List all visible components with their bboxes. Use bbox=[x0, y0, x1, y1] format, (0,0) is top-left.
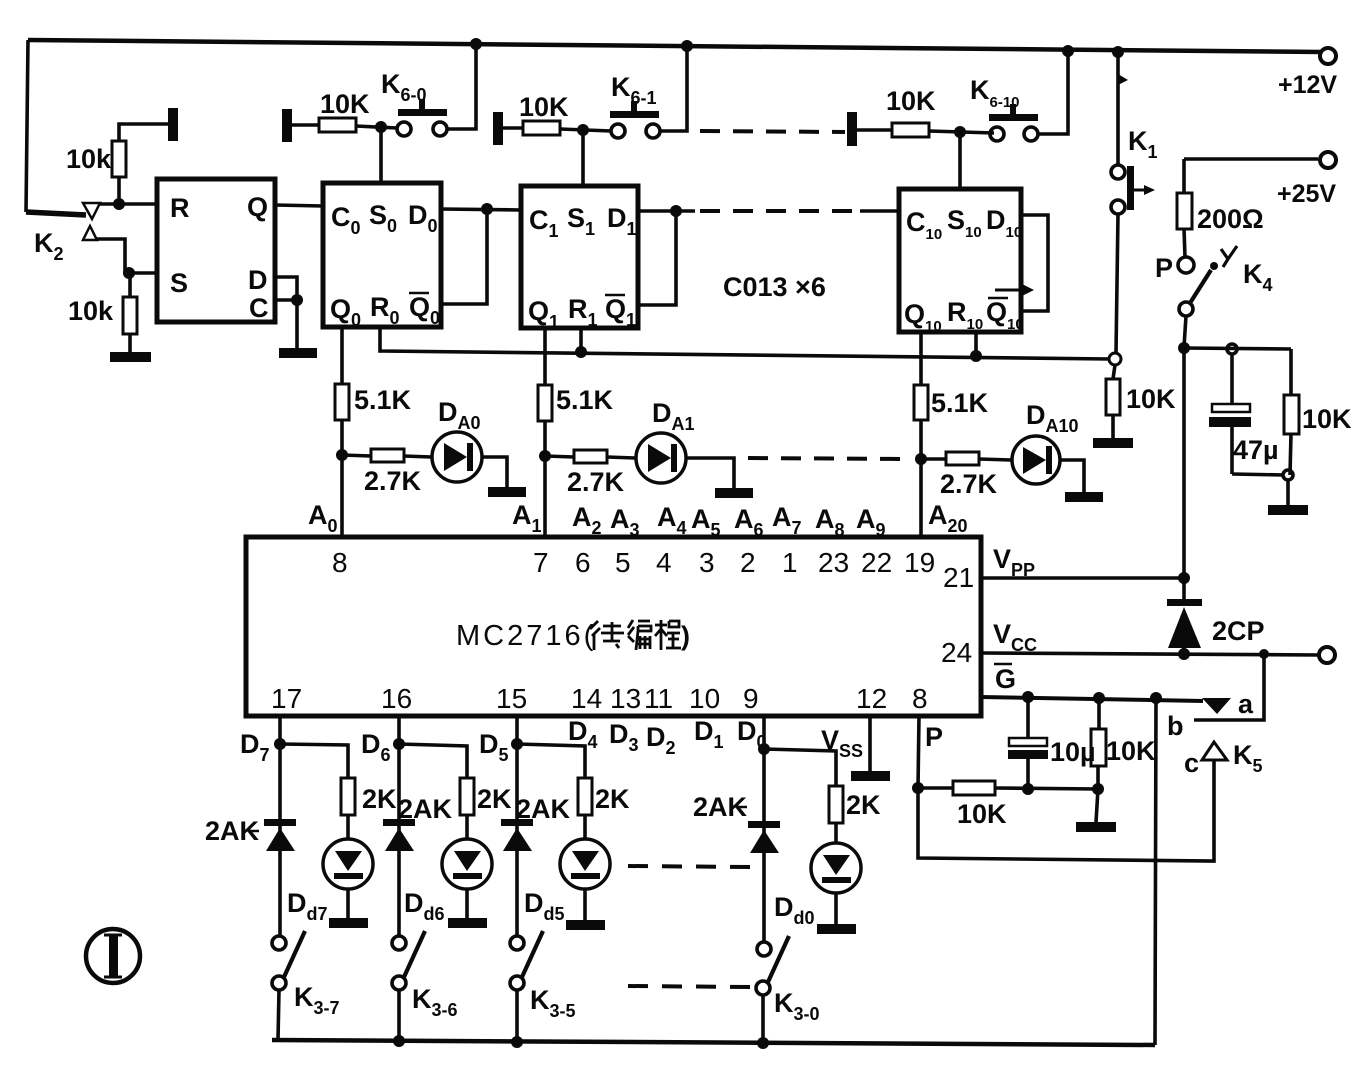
wire S0 stem bbox=[379, 127, 383, 183]
svg-text:c: c bbox=[1184, 748, 1199, 778]
resistor 10K stage10 bbox=[857, 128, 892, 132]
ground Dd6 bbox=[448, 918, 487, 928]
svg-text:P: P bbox=[925, 722, 943, 752]
wire ch1 to A1 pin bbox=[543, 421, 547, 537]
ground Dd7 bbox=[329, 918, 368, 928]
switch K3-5 bbox=[510, 936, 524, 950]
node ch10 bbox=[915, 453, 927, 465]
SECTION: dashed continuation + flip-flop stage 10 bbox=[700, 51, 1068, 335]
node R10 on reset rail bbox=[970, 350, 982, 362]
svg-text:5.1K: 5.1K bbox=[931, 388, 989, 418]
resistor 2.7K ch10 bbox=[921, 457, 946, 461]
svg-text:10K: 10K bbox=[886, 86, 936, 116]
ground below 10k bbox=[110, 352, 151, 362]
svg-text:+25V: +25V bbox=[1277, 180, 1336, 208]
wire K3-6 to rail bbox=[397, 990, 401, 1041]
svg-text:10k: 10k bbox=[66, 144, 112, 174]
svg-text:22: 22 bbox=[861, 547, 892, 578]
node top rail at x1118 bbox=[1112, 46, 1124, 58]
svg-text:14: 14 bbox=[571, 683, 602, 714]
wire S10 stem bbox=[958, 132, 962, 189]
wire into C10 bbox=[860, 209, 899, 213]
svg-text:24: 24 bbox=[941, 637, 972, 668]
wire D0 stem bbox=[762, 716, 766, 942]
wire D pin to C pin join bbox=[275, 277, 297, 300]
wire K4 to VPP node bbox=[1184, 316, 1186, 578]
dashed wire switch row bbox=[628, 986, 750, 987]
svg-text:5.1K: 5.1K bbox=[556, 385, 614, 415]
wire junction to 47u and 10K bbox=[1184, 348, 1291, 349]
wire D6 stem bbox=[397, 716, 401, 936]
svg-text:23: 23 bbox=[818, 547, 849, 578]
svg-text:19: 19 bbox=[904, 547, 935, 578]
wire left rail vertical bbox=[26, 40, 28, 212]
svg-text:7: 7 bbox=[533, 547, 549, 578]
wire VSS stem bbox=[868, 716, 872, 771]
svg-text:4: 4 bbox=[656, 547, 672, 578]
SECTION: flip-flop stage 1 bbox=[493, 46, 826, 332]
svg-text:13: 13 bbox=[610, 683, 641, 714]
wire reset rail bbox=[380, 327, 1110, 359]
svg-text:12: 12 bbox=[856, 683, 887, 714]
wire to ground bbox=[295, 300, 299, 348]
svg-text:10K: 10K bbox=[1302, 404, 1352, 434]
ground below 10K bbox=[1076, 822, 1116, 832]
SECTION: 200ohm, K4, 47u, 2CP bbox=[981, 159, 1352, 663]
svg-text:D: D bbox=[248, 265, 268, 295]
wire Q1 stem bbox=[543, 328, 547, 385]
dashed wire DA chain bbox=[748, 458, 905, 459]
wire K3-5 to rail bbox=[515, 990, 519, 1042]
wire C pin bbox=[275, 298, 297, 302]
contact c triangle K5 bbox=[1202, 742, 1227, 760]
resistor 10K (P) bbox=[918, 786, 953, 790]
capacitor 47u bbox=[1230, 354, 1234, 404]
switch K3-6 bbox=[392, 936, 406, 950]
wire P stem bbox=[918, 716, 919, 788]
node G-down bbox=[1150, 692, 1162, 704]
figure number I bbox=[86, 929, 140, 983]
wire K3-7 to rail bbox=[278, 990, 279, 1040]
terminal bar (pulse input a) bbox=[168, 108, 178, 141]
svg-text:G: G bbox=[995, 664, 1016, 694]
svg-text:): ) bbox=[681, 621, 690, 651]
ground below D-C bbox=[279, 348, 317, 358]
svg-text:5.1K: 5.1K bbox=[354, 385, 412, 415]
node top rail at x476 bbox=[470, 38, 482, 50]
node K3-6 rail bbox=[393, 1035, 405, 1047]
char 待 bbox=[590, 621, 600, 650]
svg-text:a: a bbox=[1238, 689, 1254, 719]
wire 47u to 10K bottom bbox=[1232, 474, 1284, 475]
wire D10 to Q10bar feedback bbox=[1021, 215, 1048, 311]
SECTION: bottom rail bbox=[86, 929, 1155, 1045]
SECTION: K2 and RS flip-flop bbox=[26, 108, 323, 362]
switch K3-7 bbox=[272, 936, 286, 950]
ground DA0 bbox=[488, 487, 526, 497]
svg-text:2AK: 2AK bbox=[516, 794, 571, 824]
svg-text:2CP: 2CP bbox=[1212, 616, 1265, 646]
svg-text:2K: 2K bbox=[595, 784, 630, 814]
resistor 2K (D6) bbox=[399, 744, 467, 778]
terminal bar (clock input 0) bbox=[282, 109, 292, 142]
ground DA10 bbox=[1065, 492, 1103, 502]
wire Q0 stem bbox=[340, 327, 344, 384]
svg-text:11: 11 bbox=[644, 683, 673, 714]
svg-text:8: 8 bbox=[332, 547, 348, 578]
dashed wire LED row bbox=[628, 866, 750, 867]
node D0 feedback bbox=[481, 203, 493, 215]
RS flip-flop box U1 bbox=[157, 179, 275, 322]
svg-text:10K: 10K bbox=[1106, 736, 1156, 766]
diode DA0 bbox=[432, 432, 482, 482]
wire D7 stem bbox=[278, 716, 282, 936]
switch K6-10 pushbutton bbox=[990, 127, 1004, 141]
svg-text:2.7K: 2.7K bbox=[940, 469, 998, 499]
wire +25V to 200ohm bbox=[1182, 159, 1186, 193]
switch K1 pushbutton bbox=[1111, 165, 1125, 179]
svg-text:b: b bbox=[1167, 711, 1184, 741]
wire Q10 stem bbox=[919, 332, 923, 385]
resistor 2K (D7) bbox=[280, 744, 348, 778]
wire 200ohm to P contact bbox=[1184, 229, 1185, 257]
svg-text:9: 9 bbox=[743, 683, 759, 714]
wire K3-0 to rail bbox=[761, 995, 765, 1043]
contact a triangle bbox=[1202, 698, 1231, 714]
resistor 5.1K ch0 bbox=[335, 384, 349, 420]
svg-text:C013 ×6: C013 ×6 bbox=[723, 272, 826, 302]
node D1 feedback bbox=[670, 205, 682, 217]
resistor 2K (D5) bbox=[517, 744, 585, 778]
node K3-5 rail bbox=[511, 1036, 523, 1048]
wire VPP line bbox=[981, 576, 1184, 580]
node S input bbox=[123, 267, 135, 279]
svg-text:R: R bbox=[170, 193, 190, 223]
svg-text:17: 17 bbox=[271, 683, 302, 714]
switch K2 lower contact triangle bbox=[83, 226, 97, 240]
wire +25V line bbox=[1184, 157, 1318, 161]
svg-text:10K: 10K bbox=[957, 799, 1007, 829]
wire bottom rail bbox=[272, 1040, 1155, 1045]
wire b branch bbox=[1194, 654, 1264, 720]
wire R1 stem bbox=[579, 328, 583, 352]
node D5 bbox=[511, 738, 523, 750]
svg-text:10K: 10K bbox=[519, 92, 569, 122]
node bottom circle bbox=[1283, 470, 1293, 480]
IC MC2716 box bbox=[246, 537, 981, 716]
svg-text:S: S bbox=[170, 268, 188, 298]
terminal VCC right bbox=[1319, 647, 1335, 663]
svg-text:6: 6 bbox=[575, 547, 591, 578]
wire G line bbox=[981, 697, 1203, 701]
SECTION: flip-flop stage 0 bbox=[282, 44, 521, 330]
svg-text:2K: 2K bbox=[477, 784, 512, 814]
node K3-0 rail bbox=[757, 1037, 769, 1049]
svg-text:1: 1 bbox=[782, 547, 798, 578]
node D-C join bbox=[291, 294, 303, 306]
resistor 10K right of 47u bbox=[1289, 349, 1293, 395]
resistor 200ohm bbox=[1177, 193, 1192, 229]
terminal bar (clock input 1) bbox=[493, 112, 503, 145]
node 10K bottom bbox=[1092, 783, 1104, 795]
wire D1 to Q1bar feedback bbox=[638, 211, 676, 305]
switch K2 upper contact triangle bbox=[26, 212, 86, 215]
terminal +25V bbox=[1320, 152, 1336, 168]
node ch0 bbox=[336, 449, 348, 461]
wire G to bottom rail bbox=[1155, 698, 1156, 1045]
capacitor 10u bbox=[1026, 697, 1030, 738]
node 10u bottom bbox=[1022, 783, 1034, 795]
SECTION: K1 branch and reset rail bbox=[380, 52, 1176, 448]
svg-text:8: 8 bbox=[912, 683, 928, 714]
node S10 top bbox=[954, 126, 966, 138]
svg-text:16: 16 bbox=[381, 683, 412, 714]
resistor R 10k (upper left) bbox=[117, 177, 121, 204]
node VPP junction bbox=[1178, 572, 1190, 584]
svg-text:3: 3 bbox=[699, 547, 715, 578]
resistor 5.1K ch10 bbox=[914, 385, 928, 420]
resistor 2.7K ch0 bbox=[342, 455, 371, 456]
node 47u top circle bbox=[1227, 344, 1237, 354]
SECTION: output channel D0 + VSS bbox=[693, 716, 890, 1049]
node G-10K bbox=[1093, 692, 1105, 704]
ground DA1 bbox=[715, 488, 753, 498]
char 程 bbox=[655, 620, 667, 650]
ground Dd0 bbox=[817, 924, 856, 934]
switch K4 contact P bbox=[1178, 257, 1194, 273]
resistor 10K stage1 bbox=[503, 126, 523, 130]
diode 2AK (D6) bbox=[383, 819, 415, 826]
wire ch0 to A0 pin bbox=[340, 420, 344, 537]
svg-text:P: P bbox=[1155, 253, 1173, 283]
wire K6-10 to top rail bbox=[1038, 51, 1068, 134]
wire D0 out to C1 bbox=[441, 209, 521, 210]
diode 2AK (D7) bbox=[264, 819, 296, 826]
svg-text:Q: Q bbox=[247, 192, 268, 222]
node ch1 bbox=[539, 450, 551, 462]
node R input bbox=[113, 198, 125, 210]
resistor 10k (lower left) bbox=[128, 273, 132, 297]
svg-text:2K: 2K bbox=[362, 784, 397, 814]
svg-text:10K: 10K bbox=[320, 89, 370, 119]
hand-drawn CJK 待编程 bbox=[590, 620, 681, 650]
terminal bar (clock input 10) bbox=[847, 112, 857, 146]
resistor 10K stage0 bbox=[292, 123, 319, 127]
wire Q output to C0 bbox=[275, 205, 323, 206]
node top rail at x1068 bbox=[1062, 45, 1074, 57]
resistor 2.7K ch1 bbox=[545, 456, 574, 457]
node P junction bbox=[912, 782, 924, 794]
node K4 junction bbox=[1178, 342, 1190, 354]
ground below 47u/10K bbox=[1268, 505, 1308, 515]
svg-text:2K: 2K bbox=[846, 790, 881, 820]
svg-text:C: C bbox=[249, 293, 269, 323]
node G-10u bbox=[1022, 691, 1034, 703]
wire VCC line bbox=[981, 653, 1319, 655]
node D0 bbox=[758, 743, 770, 755]
LED Dd0 bbox=[811, 843, 861, 893]
tick mark on K1 wire bbox=[1118, 74, 1128, 85]
svg-text:21: 21 bbox=[943, 562, 974, 593]
ground Dd5 bbox=[566, 920, 605, 930]
svg-text:2: 2 bbox=[740, 547, 756, 578]
wire K6-0 to top rail bbox=[447, 44, 476, 129]
svg-text:MC2716(: MC2716( bbox=[456, 620, 596, 652]
wire R10 stem bbox=[974, 332, 978, 356]
diode 2CP bbox=[1182, 578, 1186, 600]
dashed wire D1 to C10 bbox=[700, 209, 862, 213]
flip-flop box C1 bbox=[521, 186, 638, 328]
svg-text:2AK: 2AK bbox=[398, 794, 453, 824]
wire S1 stem bbox=[581, 130, 585, 186]
wire K1 lower to reset node bbox=[1116, 214, 1118, 353]
wire S node to RS box bbox=[129, 271, 157, 275]
wire D1 out bbox=[638, 209, 695, 213]
node top rail at x687 bbox=[681, 40, 693, 52]
node VCC-2CP bbox=[1178, 648, 1190, 660]
wire K1 from top rail bbox=[1116, 52, 1120, 165]
SECTION: MC2716 EPROM bbox=[246, 537, 981, 716]
switch K3-0 bbox=[757, 942, 771, 956]
ground VSS bbox=[851, 771, 890, 781]
SECTION: rails bbox=[26, 38, 1337, 212]
flip-flop box C0 bbox=[323, 183, 441, 327]
wire R node to RS box bbox=[100, 202, 157, 206]
node D6 bbox=[393, 738, 405, 750]
node reset-K1 junction circle bbox=[1109, 353, 1121, 365]
node R1 on reset rail bbox=[575, 346, 587, 358]
switch K4 arm bbox=[1210, 262, 1218, 270]
svg-text:10k: 10k bbox=[68, 296, 114, 326]
wire top +12V rail bbox=[28, 40, 1322, 52]
terminal +12V bbox=[1320, 48, 1336, 64]
diode DA10 bbox=[1012, 436, 1060, 484]
LED Dd6 bbox=[442, 839, 492, 889]
ground below 10K bbox=[1093, 438, 1133, 448]
svg-text:10µ: 10µ bbox=[1050, 737, 1096, 767]
svg-text:10K: 10K bbox=[1126, 384, 1176, 414]
arrow mark above Q10bar bbox=[995, 289, 1022, 292]
svg-text:2.7K: 2.7K bbox=[364, 466, 422, 496]
svg-text:15: 15 bbox=[496, 683, 527, 714]
wire D0 to Q0bar feedback bbox=[441, 209, 487, 304]
SECTION: output channels D7 D6 D5 bbox=[205, 716, 750, 1048]
flip-flop box C10 bbox=[899, 189, 1021, 332]
SECTION: address channels 5.1K/2.7K/DA bbox=[308, 327, 1103, 540]
node VCC-b bbox=[1259, 649, 1269, 659]
char 编 bbox=[628, 620, 634, 642]
LED Dd7 bbox=[323, 839, 373, 889]
node S1 top bbox=[577, 124, 589, 136]
SECTION: P network, G line, K5 bbox=[912, 654, 1264, 1045]
resistor 10K (G) bbox=[1097, 698, 1101, 729]
diode 2AK (D5) bbox=[501, 819, 533, 826]
resistor 2K (D0) bbox=[764, 749, 836, 786]
svg-text:+12V: +12V bbox=[1278, 71, 1337, 99]
wire K6-1 to top rail bbox=[660, 46, 687, 131]
LED Dd5 bbox=[560, 839, 610, 889]
wire to ground bbox=[1096, 789, 1098, 822]
svg-text:10: 10 bbox=[689, 683, 720, 714]
diode DA1 bbox=[636, 433, 686, 483]
wire D5 stem bbox=[515, 716, 519, 936]
overline on Q1bar bbox=[605, 294, 625, 297]
svg-text:2.7K: 2.7K bbox=[567, 467, 625, 497]
svg-text:5: 5 bbox=[615, 547, 631, 578]
switch K6-1 pushbutton bbox=[611, 124, 625, 138]
wire K2 lower contact to S node bbox=[97, 239, 128, 273]
wire ch10 to A20 pin bbox=[919, 420, 923, 537]
svg-text:47µ: 47µ bbox=[1233, 435, 1279, 465]
switch K6-0 pushbutton bbox=[397, 122, 411, 136]
resistor 10K below K1 bbox=[1113, 365, 1115, 379]
node S0 top bbox=[375, 121, 387, 133]
dashed wire top (K6 chain) bbox=[700, 131, 845, 132]
wire c to P loop bbox=[918, 760, 1214, 861]
wire to ground bbox=[1286, 480, 1290, 505]
diode 2AK (D0) bbox=[748, 821, 780, 828]
overline on Q10bar bbox=[988, 297, 1008, 300]
node D7 bbox=[274, 738, 286, 750]
overline on Q0bar bbox=[409, 292, 429, 295]
resistor 5.1K ch1 bbox=[538, 385, 552, 421]
svg-text:200Ω: 200Ω bbox=[1197, 204, 1264, 234]
